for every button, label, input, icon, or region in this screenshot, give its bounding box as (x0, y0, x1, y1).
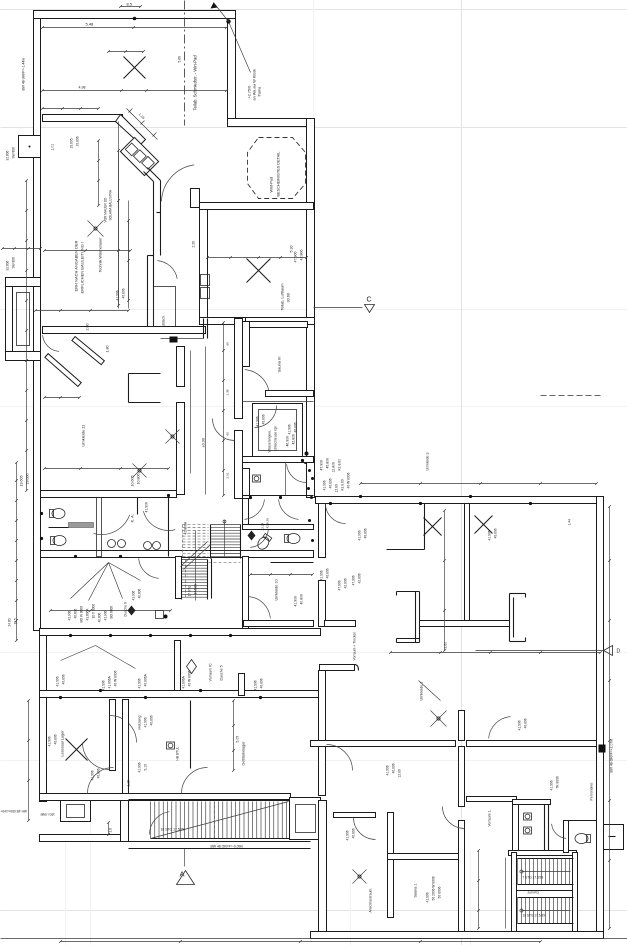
svg-text:42.806: 42.806 (358, 573, 362, 583)
diag dim line top (127, 109, 158, 140)
door arc getraenke (88, 768, 114, 794)
wall sauna3 left (243, 322, 250, 367)
electric dots wing top (329, 502, 332, 505)
svg-text:40.806: 40.806 (294, 422, 298, 432)
dim in umkleide10 (251, 574, 313, 576)
door arc dusche6 (139, 558, 159, 578)
svg-text:frama: frama (258, 86, 262, 97)
wc partition x96 (97, 498, 102, 557)
paper crease lines (1, 9, 627, 11)
wall sauna3 top (243, 322, 308, 328)
personalwc walls (564, 821, 569, 853)
svg-text:19.606: 19.606 (26, 474, 30, 485)
wall y793 lower (40, 794, 291, 801)
fireplace diagonal assembly (120, 137, 158, 175)
wall y740 big (311, 741, 456, 747)
door arc stairs bottom (149, 812, 169, 835)
wc partition x137 (137, 498, 139, 515)
svg-text:40 W 8006: 40 W 8006 (347, 472, 351, 488)
svg-text:K. A.: K. A. (130, 514, 135, 522)
black rect wall y330 (170, 337, 178, 343)
svg-text:BO 8006: BO 8006 (110, 606, 114, 619)
svg-text:41.906: 41.906 (48, 736, 52, 746)
svg-text:42.8 25: 42.8 25 (266, 518, 270, 529)
svg-text:40.806: 40.806 (494, 528, 498, 538)
svg-text:47.906: 47.906 (320, 460, 324, 470)
svg-text:40 W 8006: 40 W 8006 (114, 670, 118, 686)
x-star umkleide 1 (431, 711, 447, 727)
dim line top room (43, 27, 227, 29)
wall x122 (123, 700, 129, 794)
x-star anschluss (353, 870, 367, 884)
wing dim x444 (444, 511, 446, 651)
wall y621 umkleide10 (244, 621, 314, 627)
dim chain left x16 (16, 463, 18, 641)
svg-text:Vorraum + Trocken: Vorraum + Trocken (353, 632, 357, 661)
dim line top room 2 (43, 90, 227, 92)
svg-text:Heizung: Heizung (138, 716, 142, 730)
wall bottom outer y836 (40, 835, 129, 842)
door arc y816 (354, 818, 376, 840)
svg-text:24.80: 24.80 (8, 618, 12, 626)
svg-text:Vorraum IC: Vorraum IC (209, 663, 213, 682)
dim line near x-mark (109, 51, 144, 53)
shower room box (253, 404, 303, 457)
svg-text:8.5: 8.5 (127, 2, 133, 7)
wing left wall (319, 504, 326, 558)
svg-text:BO W 8006: BO W 8006 (80, 606, 84, 623)
door gap arc y330 (43, 335, 59, 351)
wall y562 gap (271, 562, 314, 564)
svg-text:5.68: 5.68 (178, 56, 182, 63)
sinks wc row 2 (144, 542, 152, 550)
wall y852 stairwell top (509, 851, 577, 856)
dim getraenke (233, 701, 235, 771)
dusche 6 leader lines (71, 563, 109, 599)
svg-text:40.806: 40.806 (364, 528, 368, 538)
door arc closet (157, 261, 177, 279)
dusche 6 diamond (128, 606, 136, 616)
svg-text:10.605: 10.605 (70, 138, 74, 148)
stairs right flight B (517, 898, 519, 924)
corner marks x310 (305, 452, 309, 456)
svg-text:5.48: 5.48 (86, 22, 95, 27)
svg-text:41.806A: 41.806A (108, 675, 112, 688)
svg-text:SW 806: SW 806 (12, 147, 16, 159)
svg-text:10.806: 10.806 (137, 474, 141, 485)
svg-text:1.44: 1.44 (568, 519, 572, 526)
svg-text:Umkleide 10: Umkleide 10 (275, 579, 279, 600)
svg-text:Lesesaal Lager: Lesesaal Lager (61, 730, 65, 757)
dim line y468 (45, 468, 169, 470)
svg-text:92.806: 92.806 (6, 261, 10, 271)
svg-text:Vorraum 1: Vorraum 1 (488, 810, 492, 826)
svg-text:Teilab. Luftraum: Teilab. Luftraum (281, 283, 285, 310)
svg-text:41.906: 41.906 (68, 611, 72, 621)
svg-text:41.906: 41.906 (256, 416, 260, 426)
stairs section break (181, 542, 208, 567)
svg-text:92.806: 92.806 (6, 151, 10, 161)
svg-text:10.605: 10.605 (131, 476, 135, 487)
svg-text:Sauna 1: Sauna 1 (414, 883, 418, 897)
x-star shower 2 (166, 430, 180, 444)
wing dim y652 (391, 652, 601, 654)
wall y330 span (43, 327, 206, 334)
door arc shower room (255, 406, 277, 428)
svg-text:7 STG 17.5/29: 7 STG 17.5/29 (523, 876, 544, 880)
svg-text:41.906: 41.906 (320, 570, 324, 580)
dim bottom mid (478, 851, 480, 929)
wc-d room walls (243, 469, 250, 499)
door arc umkleide10 (249, 597, 271, 619)
svg-text:40.806: 40.806 (329, 478, 333, 488)
wing wall y622 (420, 621, 510, 627)
section triangle right (604, 646, 613, 656)
svg-text:Umschleuse kpl: Umschleuse kpl (274, 426, 278, 450)
svg-text:ERH NACH ANGABEN DER: ERH NACH ANGABEN DER (74, 240, 79, 291)
wall x190 lower (190, 701, 192, 769)
diamond symbol vorraum (187, 660, 197, 674)
door arc wing bottom left (327, 745, 353, 771)
toilet wc2 (51, 536, 67, 546)
svg-text:ERFLICHEN BAULEITUNG !: ERFLICHEN BAULEITUNG ! (80, 242, 85, 294)
x-mark wing room 2 (475, 516, 493, 534)
svg-text:45.806: 45.806 (326, 458, 330, 468)
svg-text:46.906: 46.906 (286, 436, 290, 446)
toilet wc-d (285, 534, 301, 544)
svg-text:42.806: 42.806 (300, 250, 304, 261)
section marks x310 (308, 469, 311, 472)
svg-text:47.906: 47.906 (338, 580, 342, 590)
toilet junction (256, 533, 273, 551)
door arc wc big (94, 515, 130, 535)
svg-text:3.8: 3.8 (109, 828, 113, 833)
svg-text:BW 48 OKFF=+2.07m: BW 48 OKFF=+2.07m (610, 739, 614, 773)
wing top wall (316, 497, 604, 504)
svg-text:Teilab. Schmiedstr. - Wirt-: Teilab. Schmiedstr. - Wirt-Pad (193, 55, 198, 111)
door arc corridor 2 (213, 419, 235, 441)
dashed line right top (541, 395, 604, 397)
corridor dim chain (223, 323, 225, 496)
junction wall y495 (243, 495, 314, 497)
property dash-dot line (184, 1, 186, 126)
black square right wall (599, 745, 606, 753)
junction sub walls (285, 463, 287, 496)
x-mark lesesaal (66, 739, 88, 761)
svg-text:BW 48 OKFF=-0.09m: BW 48 OKFF=-0.09m (211, 845, 244, 849)
svg-text:42.806: 42.806 (292, 434, 296, 444)
svg-text:41.906: 41.906 (294, 596, 298, 606)
wall technik jog bottom-left (238, 318, 246, 332)
stairs right flight A (517, 859, 519, 885)
dim extension line x190 (190, 351, 192, 474)
svg-text:Wasserangew.: Wasserangew. (268, 430, 272, 452)
stall partition gray bar (69, 523, 94, 528)
door arc sauna3 (245, 370, 270, 395)
svg-text:2.26: 2.26 (192, 241, 196, 248)
svg-text:40.806A: 40.806A (144, 673, 148, 686)
svg-text:12.806: 12.806 (332, 462, 336, 472)
svg-text:4.98: 4.98 (79, 86, 86, 90)
svg-text:41.906: 41.906 (550, 780, 554, 790)
svg-text:41.906: 41.906 (386, 765, 390, 775)
wall wc row bottom (y552) (41, 551, 314, 558)
svg-text:Anschlussraum: Anschlussraum (369, 888, 373, 912)
electric dots y630 (69, 634, 72, 637)
wing interior wall x466 (465, 504, 470, 625)
wall outer left lower (40, 631, 47, 802)
svg-text:41.906: 41.906 (346, 830, 350, 840)
svg-text:KL 8.60: KL 8.60 (341, 479, 345, 490)
stairs arrow line (195, 531, 197, 601)
dim bottom edge line (1, 938, 627, 940)
stall partition line (49, 527, 69, 529)
small room walls x512 (513, 800, 519, 853)
dim verticals x118 (118, 122, 120, 309)
svg-text:41.906: 41.906 (132, 591, 136, 601)
wall vertical x180 (177, 347, 185, 387)
section marker top (226, 19, 230, 23)
wall sauna3 bottom (266, 391, 314, 397)
svg-text:40.806: 40.806 (98, 613, 102, 623)
dim line y397 (45, 397, 80, 399)
stairs bottom flight treads (150, 802, 152, 839)
fixture dusche6 right (164, 615, 168, 619)
svg-text:40.806: 40.806 (352, 828, 356, 838)
svg-text:16 STG 17.5/29: 16 STG 17.5/29 (161, 828, 185, 832)
diagonal bench 1 (45, 354, 81, 387)
svg-text:42.806: 42.806 (344, 578, 348, 588)
svg-text:41.906: 41.906 (358, 530, 362, 540)
wall x490 bottom (505, 858, 507, 929)
svg-text:41.906: 41.906 (288, 424, 292, 434)
svg-text:41.906: 41.906 (518, 720, 522, 730)
svg-text:50 8006: 50 8006 (438, 886, 442, 898)
shaft boxes left of technik (201, 275, 210, 286)
electric dots wc wall (40, 512, 43, 515)
toilet wc1 (50, 509, 66, 519)
svg-text:41.806A: 41.806A (182, 675, 186, 688)
wall outer left mid (34, 361, 41, 631)
lift box bottom (290, 798, 321, 840)
door arcs junction (287, 464, 307, 482)
dim line mid top (43, 108, 99, 110)
door arc x461 (443, 807, 465, 829)
junction room walls (243, 457, 314, 463)
wall jamb x240 (239, 674, 245, 696)
svg-text:1.38: 1.38 (226, 389, 230, 395)
wall jamb left of wint-pad door (157, 212, 161, 214)
dim bottom left (108, 823, 110, 835)
svg-text:41.906: 41.906 (488, 530, 492, 540)
svg-text:2.80: 2.80 (86, 324, 90, 331)
stairs dash row (209, 562, 241, 564)
wc fixture heizung (167, 742, 175, 749)
dim chain x98 (98, 141, 100, 206)
door arc wing left top (326, 504, 346, 524)
alcove c-wall right (129, 373, 161, 375)
wall step x150 (148, 255, 154, 257)
svg-text:40.806: 40.806 (54, 734, 58, 744)
svg-text:1.01: 1.01 (51, 144, 55, 151)
svg-text:17 STG: 17 STG (188, 585, 192, 597)
leader lines dusche (96, 646, 136, 669)
diagonal bench 2 (72, 337, 104, 365)
stairs lower flight treads (182, 559, 208, 561)
svg-text:A: A (180, 870, 185, 879)
dim right margin (609, 507, 611, 929)
umkleide room door arc (250, 529, 268, 547)
svg-text:41.906: 41.906 (138, 678, 142, 688)
svg-text:41.906: 41.906 (145, 502, 149, 512)
svg-text:47.906: 47.906 (294, 252, 298, 263)
dashed octagon inspection detail (248, 138, 306, 199)
door arc bottom center (182, 768, 208, 794)
junction dots (249, 496, 252, 499)
svg-text:Personalwc: Personalwc (590, 782, 594, 800)
svg-text:40.806: 40.806 (150, 715, 154, 725)
wall y622 piece (325, 621, 356, 627)
svg-text:40.806: 40.806 (138, 589, 142, 599)
entry box bottom left (61, 801, 91, 822)
closet room mid (154, 287, 176, 333)
svg-text:41.906: 41.906 (138, 762, 142, 772)
svg-text:50 2006 W 8006: 50 2006 W 8006 (432, 876, 436, 900)
dim chain left x24 upper (26, 181, 28, 491)
svg-text:41.806A: 41.806A (86, 608, 90, 621)
svg-text:1.16: 1.16 (138, 112, 146, 120)
wall y630 full (40, 629, 321, 636)
svg-text:41.906: 41.906 (56, 676, 60, 686)
wall top-right step vertical (228, 19, 236, 123)
svg-text:40.806: 40.806 (326, 568, 330, 578)
svg-text:BESCHEINIGTES DETAIL: BESCHEINIGTES DETAIL (277, 152, 281, 197)
wall x176 upper (175, 641, 181, 691)
svg-text:41.906: 41.906 (91, 770, 95, 780)
door arc ka room (143, 511, 175, 530)
svg-text:an Wa aw W Kiosk: an Wa aw W Kiosk (253, 69, 257, 101)
stairs right arrows (520, 870, 523, 873)
svg-text:41.906: 41.906 (426, 892, 430, 902)
svg-text:60: 60 (226, 432, 230, 436)
svg-text:22.24: 22.24 (261, 522, 265, 530)
svg-text:5.05: 5.05 (236, 736, 240, 743)
wall diagonal lower (148, 168, 161, 181)
wall outer left upper (34, 19, 41, 278)
svg-text:41.906: 41.906 (254, 680, 258, 690)
door arc lesesaal (110, 716, 137, 743)
small box on left wall (19, 136, 41, 158)
svg-text:Umkleide 11: Umkleide 11 (81, 424, 86, 447)
svg-text:41.906: 41.906 (104, 611, 108, 621)
svg-text:40.806: 40.806 (300, 594, 304, 604)
svg-text:41.806A: 41.806A (184, 521, 188, 534)
svg-text:41.906: 41.906 (102, 680, 106, 690)
dim left margin h (3, 248, 41, 250)
wing c-pillar left (397, 591, 420, 593)
svg-text:30.60: 30.60 (287, 293, 291, 303)
svg-text:Dusche 5: Dusche 5 (220, 665, 224, 680)
wall x461 bottom band (459, 747, 465, 807)
wall right of wint-pad room (307, 119, 315, 498)
wall below wint-pad (y205) (200, 203, 314, 210)
svg-text:+047/+060 BF HW: +047/+060 BF HW (1, 810, 27, 814)
dashed section line C (314, 307, 363, 309)
svg-text:D: D (617, 649, 621, 655)
svg-text:BW 48 UKFF=-1.44m: BW 48 UKFF=-1.44m (22, 58, 26, 91)
stairs bottom outline (129, 799, 291, 801)
svg-text:zum KG: zum KG (528, 891, 540, 895)
svg-text:2.60: 2.60 (444, 642, 448, 649)
corridor left wall upper (235, 319, 243, 419)
corridor left wall line (203, 319, 205, 339)
wall x242 lower corridor (243, 557, 249, 631)
svg-text:2.01: 2.01 (226, 472, 230, 478)
dim line far bottom left (28, 701, 30, 821)
x-mark wing room 1 (424, 518, 442, 536)
svg-text:1.15: 1.15 (127, 780, 131, 787)
svg-text:60: 60 (226, 342, 230, 346)
wall y667 piece (320, 665, 355, 671)
door arc vorraum1 (489, 717, 511, 739)
svg-text:40.806: 40.806 (97, 768, 101, 778)
x-star small technik (88, 221, 104, 237)
svg-text:HB 8/7UL: HB 8/7UL (176, 746, 180, 760)
svg-text:10 X 8006: 10 X 8006 (92, 604, 96, 619)
stairwell walls (512, 853, 517, 932)
svg-text:alter rost: alter rost (41, 813, 55, 817)
box outside right wall (604, 825, 624, 850)
svg-text:Umkleide 3: Umkleide 3 (426, 453, 430, 471)
wall diagonal upper (116, 115, 146, 145)
svg-text:7K 8006: 7K 8006 (556, 776, 560, 788)
wall y690 (40, 691, 321, 698)
x-star shower 1 (133, 464, 147, 478)
svg-text:17.5/29: 17.5/29 (194, 584, 198, 595)
wall y855 (388, 854, 464, 860)
svg-text:47.906: 47.906 (352, 575, 356, 585)
wc partition x168 (168, 498, 170, 557)
svg-text:SOLARA BALUSTRA: SOLARA BALUSTRA (109, 189, 113, 220)
svg-text:41.906: 41.906 (144, 717, 148, 727)
svg-text:Dusche 6: Dusche 6 (124, 602, 128, 616)
svg-text:±0.00: ±0.00 (202, 438, 206, 447)
svg-text:Sauna III: Sauna III (277, 356, 282, 372)
wing right wall (597, 497, 604, 932)
svg-text:Wint-Pad: Wint-Pad (270, 177, 274, 193)
svg-text:Technik Wärmeraum: Technik Wärmeraum (99, 238, 103, 273)
svg-text:19.605: 19.605 (20, 476, 24, 487)
svg-text:10.806: 10.806 (76, 136, 80, 146)
dim line y483 wing (361, 483, 597, 485)
wall outer top (left block) (34, 11, 236, 19)
svg-text:1.80: 1.80 (106, 346, 110, 353)
svg-text:C: C (367, 297, 372, 304)
svg-text:SW 806: SW 806 (12, 257, 16, 269)
x-mark technik luftraum (247, 259, 271, 283)
toilet personalwc (575, 834, 591, 844)
wall technik room left (200, 210, 208, 325)
svg-text:5.10: 5.10 (144, 764, 148, 771)
wing wall piece x424 (424, 504, 426, 550)
stairs dashed flight (183, 524, 209, 526)
svg-text:12.80: 12.80 (398, 769, 402, 777)
svg-text:12.80: 12.80 (335, 484, 339, 492)
wall y812 (334, 813, 376, 818)
dim marks y605 (51, 610, 171, 612)
wall wc row top (41, 491, 177, 498)
wall vertical x122 bottom (121, 801, 129, 842)
